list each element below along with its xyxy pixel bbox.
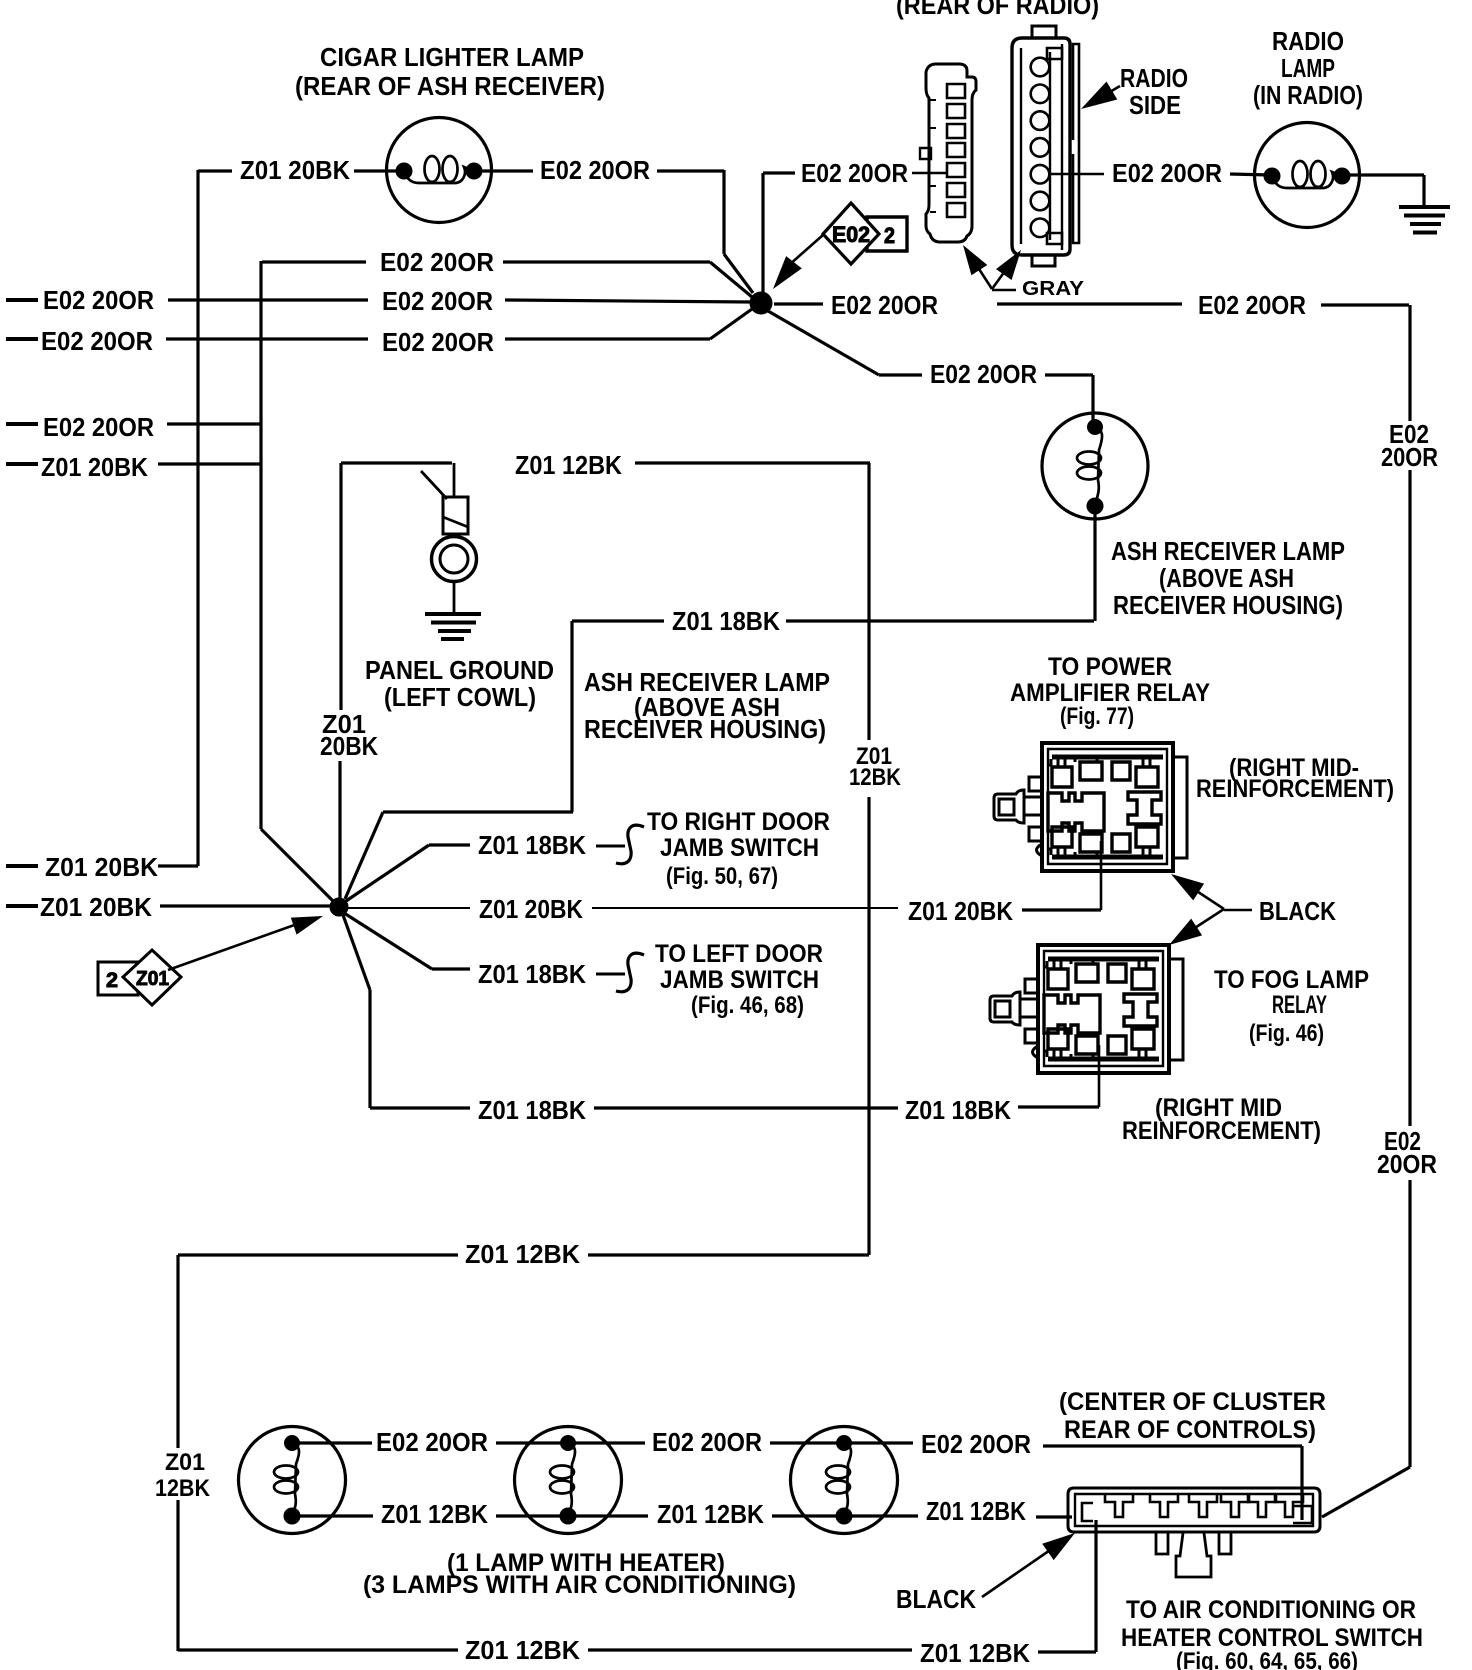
- svg-text:2: 2: [106, 969, 118, 992]
- svg-text:Z01 12BK: Z01 12BK: [465, 1239, 580, 1269]
- connector symbol E02 2: [823, 203, 907, 264]
- wire vertical Z01 20BK x198: [196, 170, 199, 866]
- wire Z01 18BK to right door jamb switch: [346, 845, 429, 901]
- svg-text:(Fig. 46, 68): (Fig. 46, 68): [691, 992, 804, 1019]
- svg-text:RADIO: RADIO: [1272, 26, 1344, 56]
- connector gray radio harness side: [920, 64, 976, 242]
- svg-text:E02 20OR: E02 20OR: [831, 290, 938, 320]
- svg-text:Z01 20BK: Z01 20BK: [908, 896, 1013, 926]
- connector center tab: [1176, 1533, 1211, 1577]
- label E02 20OR left of gray connector: [763, 171, 795, 174]
- wire Z01 20BK node to power amplifier relay: [348, 907, 470, 909]
- wire E02 20OR cigar lamp right: [474, 169, 533, 172]
- radio connector body: [1012, 38, 1070, 255]
- svg-text:(CENTER OF CLUSTER: (CENTER OF CLUSTER: [1059, 1388, 1326, 1416]
- relay connector to fog lamp relay: [990, 945, 1183, 1073]
- wire Z01 12BK row 463: [341, 461, 452, 464]
- ground symbol radio lamp: [1399, 205, 1450, 209]
- wire E02 20OR into gray connector: [912, 172, 947, 175]
- svg-text:(LEFT COWL): (LEFT COWL): [384, 682, 536, 712]
- svg-text:Z01 18BK: Z01 18BK: [672, 606, 780, 636]
- svg-text:12BK: 12BK: [849, 764, 902, 791]
- svg-text:LAMP: LAMP: [1281, 53, 1335, 83]
- svg-text:Z01 20BK: Z01 20BK: [240, 155, 350, 185]
- svg-text:TO LEFT DOOR: TO LEFT DOOR: [655, 940, 823, 968]
- svg-text:Z01: Z01: [165, 1449, 205, 1476]
- connector pins: [1105, 1495, 1133, 1517]
- svg-text:Z01: Z01: [136, 968, 169, 990]
- svg-text:Z01 20BK: Z01 20BK: [40, 892, 152, 922]
- svg-text:Z01 20BK: Z01 20BK: [45, 852, 158, 882]
- lamp cigar lighter (rear of ash receiver): [387, 118, 492, 223]
- wire Z01 12BK vertical x869: [867, 463, 870, 740]
- wire Z01 18BK node down to fog lamp relay: [343, 915, 370, 990]
- svg-text:E02 20OR: E02 20OR: [930, 359, 1037, 389]
- svg-text:E02 20OR: E02 20OR: [1112, 158, 1222, 188]
- svg-text:RELAY: RELAY: [1272, 991, 1327, 1019]
- svg-text:Z01 18BK: Z01 18BK: [478, 1095, 586, 1125]
- svg-text:TO AIR CONDITIONING OR: TO AIR CONDITIONING OR: [1126, 1596, 1416, 1624]
- panel ground ring terminal: [432, 537, 477, 582]
- wire Z01 20BK cigar lamp left: [198, 169, 232, 172]
- svg-text:RECEIVER HOUSING): RECEIVER HOUSING): [584, 714, 826, 744]
- connector radio side (in radio): [1012, 26, 1079, 266]
- radio connector bottom inner box: [1047, 233, 1062, 244]
- svg-text:E02 20OR: E02 20OR: [43, 412, 154, 442]
- wire Z01 20BK label drop to junction: [339, 463, 342, 710]
- radio connector bottom tab: [1032, 255, 1055, 266]
- svg-text:(Fig. 46): (Fig. 46): [1249, 1020, 1324, 1047]
- relay inner face: [1048, 749, 1167, 864]
- lamp ash receiver (above ash receiver housing): [1042, 413, 1148, 519]
- wire Z01 12BK bottom rail: [178, 1648, 458, 1651]
- svg-text:Z01 12BK: Z01 12BK: [657, 1499, 764, 1529]
- wire E02 20OR node right: [774, 302, 823, 305]
- svg-text:2: 2: [884, 223, 895, 248]
- wire radio lamp to ground: [1346, 173, 1424, 176]
- svg-text:TO RIGHT DOOR: TO RIGHT DOOR: [647, 808, 830, 836]
- svg-text:Z01 12BK: Z01 12BK: [381, 1499, 488, 1529]
- svg-text:(IN RADIO): (IN RADIO): [1253, 80, 1363, 110]
- relay outer shell: [1042, 743, 1173, 871]
- svg-text:E02 20OR: E02 20OR: [382, 286, 493, 316]
- arrow from 2 Z01 to junction: [168, 923, 300, 970]
- radio connector top inner box: [1047, 48, 1062, 59]
- svg-text:(ABOVE ASH: (ABOVE ASH: [1159, 563, 1294, 593]
- svg-text:RECEIVER HOUSING): RECEIVER HOUSING): [1113, 590, 1343, 620]
- svg-text:Z01 12BK: Z01 12BK: [465, 1635, 580, 1665]
- svg-text:(Fig. 50, 67): (Fig. 50, 67): [666, 863, 778, 890]
- svg-text:(Fig. 60, 64, 65, 66): (Fig. 60, 64, 65, 66): [1176, 1648, 1358, 1670]
- wire vertical E02 x261: [259, 261, 262, 829]
- wire E02 20OR node to ash receiver lamp: [768, 311, 879, 375]
- svg-text:PANEL GROUND: PANEL GROUND: [365, 655, 554, 685]
- wire E02 20OR right vertical: [1408, 305, 1411, 421]
- svg-text:TO POWER: TO POWER: [1048, 653, 1172, 681]
- svg-text:REAR OF CONTROLS): REAR OF CONTROLS): [1064, 1416, 1316, 1444]
- svg-text:SIDE: SIDE: [1129, 90, 1181, 120]
- wire Z01 18BK ash lamp down: [1093, 506, 1096, 621]
- relay outer shell: [1038, 945, 1169, 1073]
- radio connector inner walls: [1020, 48, 1022, 244]
- relay left lock tab: [1029, 777, 1042, 791]
- svg-text:20OR: 20OR: [1381, 442, 1438, 472]
- relay pin pattern: [1048, 957, 1159, 962]
- wire gray label arrows: [979, 269, 992, 289]
- svg-text:TO FOG LAMP: TO FOG LAMP: [1214, 966, 1369, 994]
- svg-text:E02 20OR: E02 20OR: [921, 1429, 1031, 1459]
- wire E02 20OR lamp chain top: [292, 1441, 372, 1444]
- lamp illumination 3: [791, 1427, 898, 1534]
- lamp illumination 1: [239, 1427, 346, 1534]
- wire Z01 12BK left rail: [176, 1255, 179, 1448]
- svg-text:REINFORCEMENT): REINFORCEMENT): [1196, 775, 1394, 803]
- svg-text:20BK: 20BK: [320, 731, 378, 761]
- relay left lock tab: [1025, 979, 1038, 993]
- svg-text:BLACK: BLACK: [896, 1584, 976, 1614]
- svg-text:20OR: 20OR: [1377, 1149, 1437, 1179]
- svg-text:Z01 20BK: Z01 20BK: [479, 894, 583, 924]
- svg-text:E02 20OR: E02 20OR: [376, 1427, 488, 1457]
- wire E02 20OR row 262: [262, 260, 366, 263]
- svg-text:E02 20OR: E02 20OR: [41, 326, 153, 356]
- svg-text:Z01 12BK: Z01 12BK: [926, 1496, 1026, 1526]
- radio connector right bar: [1073, 44, 1079, 243]
- svg-text:JAMB SWITCH: JAMB SWITCH: [660, 966, 819, 994]
- connector legs: [1156, 1532, 1168, 1554]
- relay inner face: [1044, 951, 1163, 1066]
- svg-text:BLACK: BLACK: [1259, 896, 1336, 926]
- radio connector pin circles: [1031, 58, 1050, 77]
- wire Z01 18BK to left door jamb switch: [344, 913, 432, 969]
- left stub dashes: [6, 298, 38, 302]
- svg-text:E02: E02: [832, 222, 870, 247]
- svg-text:(REAR OF ASH RECEIVER): (REAR OF ASH RECEIVER): [295, 71, 605, 101]
- svg-text:E02 20OR: E02 20OR: [43, 285, 154, 315]
- svg-text:Z01 18BK: Z01 18BK: [478, 959, 586, 989]
- lamp illumination 2: [515, 1427, 622, 1534]
- svg-text:E02 20OR: E02 20OR: [801, 158, 908, 188]
- svg-text:Z01 12BK: Z01 12BK: [515, 450, 622, 480]
- wire Z01 12BK lamp chain bottom: [292, 1514, 373, 1517]
- relay pin pattern: [1052, 755, 1163, 760]
- svg-text:JAMB SWITCH: JAMB SWITCH: [660, 834, 819, 862]
- relay connector to power amplifier relay: [994, 743, 1187, 871]
- relay right bar: [1169, 959, 1183, 1060]
- junction node Z01: [330, 898, 348, 916]
- svg-text:Z01 12BK: Z01 12BK: [920, 1638, 1030, 1668]
- svg-text:E02 20OR: E02 20OR: [382, 327, 494, 357]
- svg-text:E02 20OR: E02 20OR: [380, 247, 494, 277]
- svg-text:Z01 18BK: Z01 18BK: [905, 1095, 1011, 1125]
- svg-text:(Fig. 77): (Fig. 77): [1060, 703, 1134, 730]
- connector left end pin: [1082, 1503, 1093, 1521]
- relay right bar: [1173, 757, 1187, 858]
- svg-text:E02 20OR: E02 20OR: [652, 1427, 762, 1457]
- connector right end pin hook: [1293, 1506, 1312, 1523]
- svg-text:ASH RECEIVER LAMP: ASH RECEIVER LAMP: [1111, 536, 1345, 566]
- wire E02 20OR radio connector to radio lamp: [1049, 173, 1104, 176]
- svg-text:(REAR OF RADIO): (REAR OF RADIO): [896, 0, 1099, 20]
- wire Z01 12BK top rail: [178, 1253, 458, 1256]
- svg-text:RADIO: RADIO: [1120, 63, 1188, 93]
- junction node E02: [750, 292, 772, 314]
- svg-text:12BK: 12BK: [155, 1475, 211, 1502]
- arrow from E02 2 to junction: [789, 235, 823, 265]
- heater control switch connector: [1068, 1488, 1320, 1577]
- radio connector top tab: [1032, 26, 1056, 38]
- svg-text:CIGAR LIGHTER LAMP: CIGAR LIGHTER LAMP: [320, 42, 584, 72]
- svg-text:(3 LAMPS WITH AIR CONDITIONING: (3 LAMPS WITH AIR CONDITIONING): [363, 1571, 796, 1599]
- svg-text:E02 20OR: E02 20OR: [540, 155, 650, 185]
- svg-text:Z01 20BK: Z01 20BK: [41, 452, 148, 482]
- svg-text:E02 20OR: E02 20OR: [1198, 290, 1306, 320]
- svg-text:GRAY: GRAY: [1022, 278, 1085, 300]
- panel ground clamp: [453, 463, 456, 497]
- connector symbol 2 Z01: [98, 950, 181, 1005]
- ground symbol panel: [425, 612, 481, 616]
- lamp radio (in radio): [1255, 123, 1360, 228]
- svg-text:Z01 18BK: Z01 18BK: [478, 830, 586, 860]
- wire connector drop to node: [761, 173, 764, 293]
- svg-text:REINFORCEMENT): REINFORCEMENT): [1122, 1117, 1321, 1145]
